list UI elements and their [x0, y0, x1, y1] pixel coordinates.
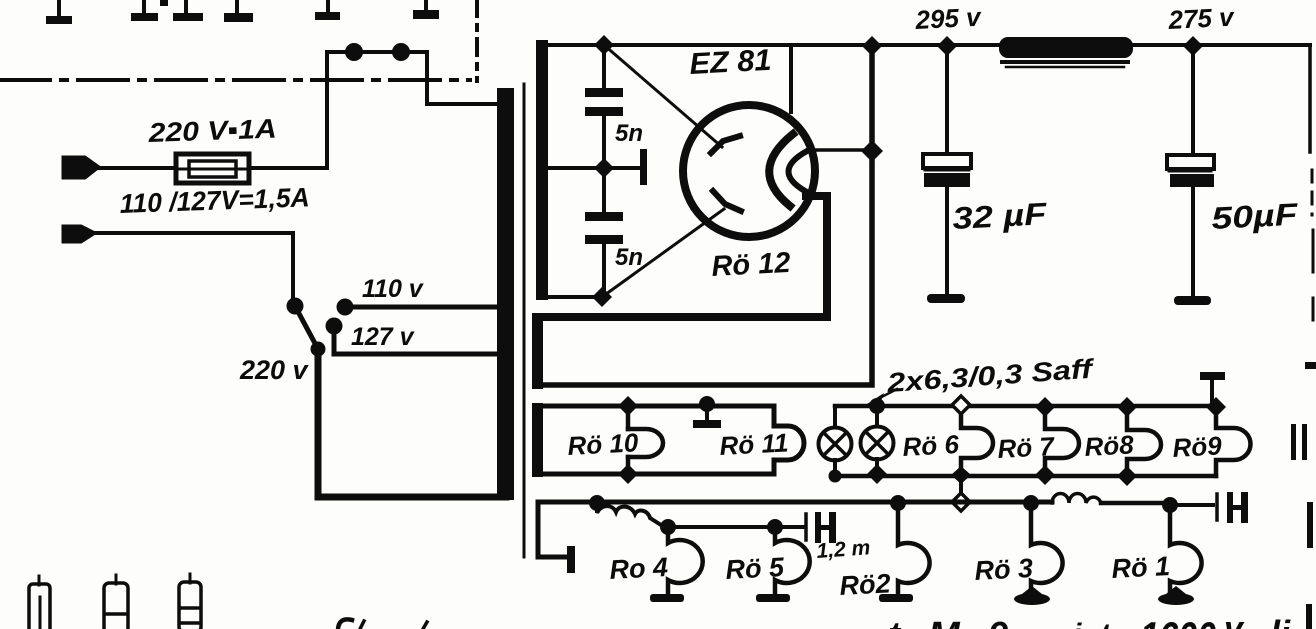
EZ81 anode plate 1 — [711, 136, 740, 153]
svg-text:Rö 7: Rö 7 — [997, 431, 1056, 464]
selector contact 110V — [337, 299, 354, 316]
chassis boundary dash-dot horizontal — [0, 78, 470, 82]
svg-text:EZ 81: EZ 81 — [689, 44, 773, 81]
svg-text:275 v: 275 v — [1167, 2, 1236, 35]
wire rail to C3 — [945, 46, 949, 155]
wire bus to C6 — [1172, 503, 1213, 507]
ground Rö3 — [1014, 593, 1050, 605]
heater Rö9 bump (right edge) — [1216, 406, 1251, 476]
node La1 bottom — [829, 470, 842, 483]
capacitor C4 50uF bottom plate — [1170, 174, 1214, 187]
mains plug P2 — [63, 226, 95, 242]
svg-text:Ro 4: Ro 4 — [609, 552, 669, 585]
cut tube stub B (bottom left) — [104, 575, 128, 629]
node Rö10 bottom — [618, 464, 638, 484]
node Rö6 top (open) — [952, 396, 970, 414]
wire 110V tap — [345, 305, 500, 310]
fuse Si 220V=1A / 110-127V=1.5A — [176, 154, 249, 183]
svg-text:50µF: 50µF — [1211, 196, 1300, 236]
cut caption Sch... — [338, 619, 352, 629]
node bus Rö2 tap — [890, 495, 906, 511]
capacitor C1 5n lower plate — [585, 107, 623, 116]
dial lamp La1 — [833, 406, 837, 428]
capacitor C3 32uF bottom plate — [924, 173, 970, 187]
chassis boundary dash-dot vertical — [475, 0, 479, 81]
svg-text:Rö 3: Rö 3 — [974, 553, 1034, 586]
capacitor C6 — [1215, 494, 1219, 520]
heater chain 2 top edge — [835, 404, 1216, 409]
svg-text:1600: 1600 — [1140, 613, 1216, 629]
tube EZ81 Rö12 envelope — [683, 105, 815, 237]
node bus Rö1 tap — [1162, 497, 1178, 513]
node Rö8 top — [1117, 397, 1137, 417]
svg-text:127 v: 127 v — [351, 323, 416, 351]
cut tube stub A (bottom left) — [29, 576, 50, 629]
node rail 275V — [1183, 36, 1203, 56]
lamp stub 1 (cut off at top) — [46, 0, 72, 24]
wire cathode output — [812, 148, 872, 152]
on/off switch wire — [327, 50, 427, 54]
heater chain 2 bottom edge — [835, 474, 1216, 479]
right edge cut wire (bus level) — [1307, 502, 1313, 548]
heater loop 1 top edge — [540, 404, 774, 409]
svg-text:Rö 10: Rö 10 — [567, 427, 640, 461]
selector contact 220V — [311, 342, 326, 357]
svg-text:2x6,3/0,3 Saff: 2x6,3/0,3 Saff — [885, 354, 1096, 399]
node bus Rö3 tap — [1023, 495, 1039, 511]
tube Rö5 heater curl — [775, 527, 810, 595]
node cathode junction — [861, 140, 883, 162]
switch contact dot A — [345, 43, 363, 61]
lamp stub 3 (cut off at top) — [173, 0, 203, 21]
lamp stub 5 (cut off at top) — [315, 0, 340, 20]
heater Rö10 drop wire — [626, 406, 631, 429]
wire B+ vertical to winding return — [544, 46, 872, 385]
node Rö7 bottom — [1035, 465, 1055, 485]
tube pin stub to rail — [789, 45, 793, 112]
ground Rö1 — [1158, 593, 1194, 605]
transformer Tr primary winding bar — [497, 88, 514, 500]
wire up to on/off switch — [325, 52, 329, 168]
svg-text:Rö8: Rö8 — [1084, 429, 1135, 462]
svg-text:Rö2: Rö2 — [839, 568, 892, 601]
lamp stub 2 (cut off at top) — [131, 0, 168, 21]
rail corner down right edge — [1308, 45, 1312, 152]
capacitor C1 5n upper plate — [585, 88, 623, 97]
node winding bottom junction — [592, 287, 612, 307]
capacitor C2 5n upper plate — [585, 212, 623, 221]
choke core line 2 — [1006, 66, 1124, 69]
svg-text:Rö 6: Rö 6 — [902, 429, 960, 462]
svg-text:110 /127V=1,5A: 110 /127V=1,5A — [119, 182, 310, 219]
ground C3 — [927, 294, 965, 303]
wire 220V tap to primary bottom — [318, 349, 506, 497]
choke L (filter) body — [999, 37, 1133, 58]
HV winding bottom lead — [544, 295, 602, 299]
node Rö10 top — [618, 396, 638, 416]
node Rö6 bottom — [951, 466, 971, 484]
EZ81 cathode arc — [769, 134, 793, 206]
capacitor C3 32uF top plate — [923, 154, 971, 168]
transformer heater winding bar — [532, 403, 543, 477]
right edge cut capacitor bars — [1291, 424, 1296, 460]
wire rail to C1 — [602, 45, 606, 88]
node rail/C1 junction — [594, 35, 614, 55]
capacitor C5 1,2m — [804, 514, 808, 540]
HV winding top lead / B+ rail — [542, 43, 1310, 47]
mains plug P1 — [63, 157, 99, 178]
capacitor C4 50uF top plate — [1167, 155, 1214, 169]
wire 127V tap — [334, 326, 500, 354]
wire fuse to corner — [249, 166, 327, 170]
voltage selector pivot — [287, 298, 304, 315]
wire switch to transformer primary top — [427, 52, 498, 104]
svg-text:Rö 5: Rö 5 — [725, 552, 786, 585]
wire Rö6 chain to bus — [959, 476, 963, 502]
wire anode 2 lead (diagonal) — [602, 209, 724, 297]
capacitor C2 5n lower plate — [585, 235, 623, 244]
right edge wire fragments — [1311, 170, 1314, 215]
bus left end to chassis — [538, 502, 566, 557]
svg-text:Rö9: Rö9 — [1172, 430, 1223, 463]
tube Rö1 heater curl — [1170, 505, 1202, 594]
wire rail to C4 — [1191, 46, 1195, 156]
transformer HV secondary winding bar — [536, 40, 548, 300]
wire C2 to winding bottom — [602, 244, 606, 297]
EZ81 anode plate 2 — [713, 191, 741, 211]
heater Rö11 bump (right edge) — [774, 406, 804, 474]
chassis tap above Rö9 — [1200, 372, 1225, 380]
heater Rö6 drop + bump — [961, 406, 993, 476]
svg-text:M: M — [928, 615, 961, 629]
svg-text:32 µF: 32 µF — [952, 196, 1049, 236]
svg-text:220 v: 220 v — [239, 355, 310, 385]
switch contact dot B — [392, 43, 410, 61]
heater Rö7 drop + bump — [1045, 406, 1079, 476]
chassis tap bar — [640, 149, 647, 185]
coil L3 in bus — [1052, 494, 1101, 504]
node rail 295V — [937, 36, 957, 56]
ground C4 — [1174, 296, 1211, 305]
heater winding ground tap — [699, 396, 715, 412]
heater loop 1 bottom edge — [540, 472, 774, 477]
ground Rö2 — [879, 594, 913, 602]
svg-text:5n: 5n — [615, 244, 643, 271]
heater Rö8 drop + bump — [1127, 406, 1161, 476]
selector contact 127V — [326, 318, 343, 335]
svg-text:t.: t. — [1099, 617, 1120, 629]
tube Rö2 heater curl — [898, 503, 930, 595]
svg-text:i: i — [1073, 618, 1082, 629]
transformer rectifier-heater winding bar — [532, 313, 543, 389]
wire C3 to ground — [945, 187, 949, 296]
cut tube stub C (bottom left) — [179, 574, 201, 629]
svg-text:110 v: 110 v — [362, 275, 425, 303]
dial lamp La2 — [875, 406, 879, 427]
tube Rö3 heater curl — [1031, 503, 1063, 594]
node bus Rö4 tap — [589, 495, 605, 511]
node Rö5 tap — [767, 519, 783, 535]
wire plug P2 to voltage selector — [93, 233, 293, 303]
node coil out — [660, 519, 676, 535]
svg-text:5n: 5n — [615, 120, 643, 147]
EZ81 filament arc — [788, 151, 807, 191]
right edge cut wire (bottom) — [1306, 604, 1312, 629]
lamp stub 6 (cut off at top) — [413, 0, 439, 19]
svg-text:li: li — [1270, 613, 1291, 629]
svg-text:v: v — [1224, 610, 1245, 629]
ground Rö5 — [756, 594, 790, 602]
node Rö8 bottom — [1117, 466, 1137, 486]
HV winding center tap lead — [544, 166, 640, 170]
node Rö9 top — [1206, 397, 1226, 417]
svg-text:295 v: 295 v — [914, 2, 983, 35]
tube Rö4 heater curl — [668, 527, 703, 595]
svg-text:220 V▪1A: 220 V▪1A — [147, 114, 277, 148]
wire to Rö5 tap — [668, 525, 775, 529]
lamp stub 4 (cut off at top) — [224, 0, 253, 22]
wire heater pin to heater winding (thick L) — [544, 196, 827, 317]
arrow to lamps — [874, 389, 897, 401]
node center tap junction — [594, 158, 614, 178]
right edge cut fragment (upper bar) — [1305, 362, 1316, 369]
wire C4 to ground — [1191, 187, 1195, 297]
anode supply bus — [538, 500, 1052, 505]
wire center tap to C2 — [602, 168, 606, 212]
wire C1 to center tap — [602, 116, 606, 168]
transformer core line — [523, 84, 526, 557]
node rail/cathode riser — [862, 36, 882, 56]
svg-text:Rö 12: Rö 12 — [711, 247, 792, 283]
ground Rö4 — [650, 594, 684, 602]
svg-text:9: 9 — [988, 614, 1008, 629]
choke core line 1 — [1002, 60, 1128, 64]
node bus crossing (open) — [952, 493, 970, 511]
node La2 bottom — [867, 464, 887, 484]
heater Rö10 bump — [628, 429, 663, 457]
selector wiper arm — [295, 306, 318, 349]
svg-text:t: t — [888, 614, 902, 629]
svg-text:Rö 11: Rö 11 — [719, 427, 789, 461]
wire to C5 — [775, 525, 803, 529]
svg-text:1,2 m: 1,2 m — [816, 536, 871, 563]
svg-text:Rö 1: Rö 1 — [1111, 551, 1171, 584]
wire anode 1 lead (diagonal) — [604, 45, 722, 147]
node La2 top — [869, 398, 885, 414]
coil L2 (hum filter) — [597, 503, 661, 525]
wire plug P1 to fuse — [97, 166, 176, 170]
node Rö7 top — [1035, 397, 1055, 417]
